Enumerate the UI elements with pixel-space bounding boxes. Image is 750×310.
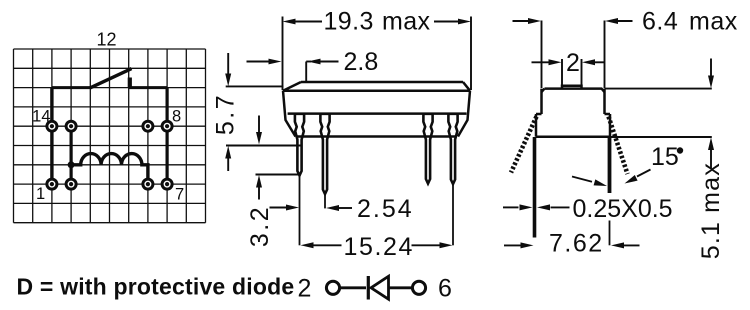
- svg-text:3.2: 3.2: [246, 205, 274, 247]
- grid: [14, 49, 206, 223]
- wire: left vertical pin14-pin1: [50, 88, 53, 185]
- pin right crimp hatch: [609, 117, 628, 175]
- extension line pin1 centerline: [299, 176, 301, 246]
- diode D1: [367, 276, 370, 300]
- pin circle 14 inner: [66, 121, 76, 131]
- svg-text:8: 8: [172, 107, 181, 125]
- pin circle 1 outer: [47, 179, 57, 189]
- wire: [389, 286, 413, 289]
- extension line pin2 centerline: [324, 194, 326, 208]
- svg-text:0.25X0.5: 0.25X0.5: [573, 195, 673, 223]
- svg-text:19.3: 19.3: [324, 8, 374, 36]
- pin left (end view): [533, 137, 537, 238]
- pin right (end view): [608, 137, 612, 193]
- pin circle 14 outer: [47, 121, 57, 131]
- svg-text:5.1: 5.1: [697, 221, 725, 259]
- wire: right vertical pin8-pin7: [166, 88, 169, 185]
- dimension 2.54: [270, 207, 353, 210]
- svg-text:7.62: 7.62: [549, 230, 604, 258]
- package body end view: [562, 86, 582, 89]
- svg-text:7: 7: [175, 186, 184, 204]
- extension pin right centerline: [609, 221, 611, 246]
- dimension 3.2: [256, 116, 302, 200]
- svg-text:D = with protective diode: D = with protective diode: [17, 274, 295, 300]
- svg-text:15: 15: [651, 143, 679, 171]
- svg-text:6: 6: [438, 275, 452, 303]
- svg-text:max: max: [697, 162, 725, 213]
- pin circle 7 inner: [143, 179, 153, 189]
- pin circle 1 inner: [66, 179, 76, 189]
- wire: [340, 286, 366, 289]
- svg-text:14: 14: [32, 107, 50, 125]
- pin circle 7 outer: [162, 179, 172, 189]
- svg-text:5.7: 5.7: [212, 93, 240, 135]
- svg-text:12: 12: [96, 29, 116, 49]
- switch S1: [52, 69, 167, 89]
- terminal circle 2: [326, 281, 339, 294]
- svg-text:6.4: 6.4: [642, 8, 678, 36]
- svg-text:15.24: 15.24: [344, 233, 415, 261]
- svg-text:1: 1: [36, 185, 45, 203]
- pin P4 (side view): [448, 114, 457, 184]
- svg-text:2: 2: [566, 49, 580, 77]
- dimension 0.25X0.5: [503, 206, 570, 208]
- terminal circle 6: [412, 281, 425, 294]
- wire: inner-left vertical: [69, 126, 72, 184]
- svg-text:max: max: [382, 8, 431, 36]
- pin left crimp hatch: [511, 117, 537, 173]
- junction: [68, 161, 75, 168]
- pin P2 (side view): [320, 114, 329, 194]
- dimension 2.8: [247, 62, 339, 84]
- package body side view: [301, 81, 463, 84]
- pin circle 8 inner: [143, 121, 153, 131]
- svg-text:2.54: 2.54: [357, 195, 414, 223]
- dimension 15.24: [312, 244, 442, 246]
- svg-text:2.8: 2.8: [344, 48, 379, 76]
- dimension 6.4 max: [513, 21, 633, 89]
- dimension 5.1 max: [605, 59, 712, 169]
- svg-text:max: max: [689, 8, 738, 36]
- extension line pin4 centerline: [452, 184, 454, 245]
- dimension 7.62: [504, 244, 640, 246]
- pin P1 (side view): [295, 114, 304, 176]
- dimension 5.7: [226, 53, 301, 171]
- svg-text:2: 2: [298, 275, 312, 303]
- coil L1: [71, 154, 148, 179]
- pin circle 8 outer: [162, 121, 172, 131]
- dimension 2: [532, 59, 605, 86]
- pin P3 (side view): [423, 114, 432, 184]
- dimension 19.3 max: [283, 17, 472, 91]
